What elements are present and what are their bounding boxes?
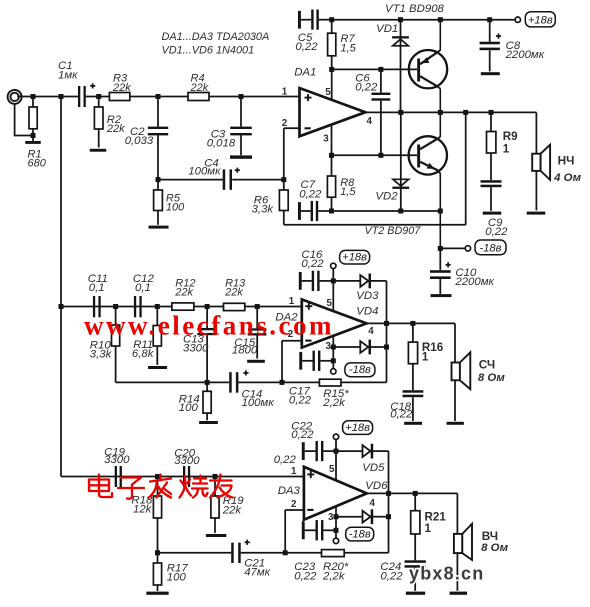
svg-text:-18в: -18в (349, 528, 371, 540)
net label +18в DA3 (343, 421, 373, 435)
node C11-C12-R10 (113, 304, 118, 309)
svg-text:VD2: VD2 (375, 191, 398, 203)
label R17 100 (167, 563, 189, 584)
resistor R4 (188, 93, 209, 101)
label C7 0,22 (299, 179, 322, 200)
svg-text:3300: 3300 (183, 343, 209, 355)
wire DA2 pin3 (332, 336, 334, 369)
node R1 bottom (31, 133, 36, 138)
svg-text:2: 2 (282, 118, 288, 129)
ground C24 (406, 592, 425, 595)
svg-text:0,22: 0,22 (291, 429, 314, 441)
op-amp DA2 (302, 299, 367, 347)
svg-text:1,5: 1,5 (341, 42, 357, 54)
node C4-R6-pin2 (281, 177, 286, 182)
node pin5 DA3 (334, 449, 339, 454)
svg-text:2: 2 (291, 499, 297, 510)
wire input to C1 (33, 96, 78, 98)
resistor R18 (153, 477, 161, 553)
svg-text:+18в: +18в (528, 14, 553, 26)
resistor R2 (94, 97, 103, 148)
node pin2-bottom line DA2 (280, 380, 285, 385)
node output-R16 (410, 321, 415, 326)
node output-feedback (463, 110, 468, 115)
svg-text:VD4: VD4 (356, 305, 378, 317)
label C9 0,22 (485, 217, 508, 238)
wire DA2 pin5 (332, 281, 334, 311)
resistor R8 (327, 155, 335, 211)
node pin5-R7-C6 line (329, 67, 334, 72)
ground speaker ВЧ (450, 592, 468, 595)
svg-text:22k: 22k (106, 123, 125, 135)
label R13 22k (224, 277, 246, 298)
svg-text:1800: 1800 (232, 345, 258, 357)
svg-text:VT2 BD907: VT2 BD907 (365, 225, 422, 237)
label R5 100 (166, 193, 185, 214)
node pin3 line left (329, 153, 334, 158)
wire DA3 pin3 (335, 506, 337, 538)
svg-text:1мк: 1мк (58, 69, 78, 81)
node jack-R1 top (31, 94, 36, 99)
svg-text:VD5: VD5 (362, 462, 385, 474)
speaker НЧ (532, 145, 550, 211)
terminal -18V DA2 (331, 369, 336, 374)
wire R15 to VD column (341, 281, 387, 383)
node C1-R2 (96, 94, 101, 99)
wire R18 bottom line (158, 552, 232, 554)
diode VD5 (336, 444, 389, 459)
label C8 2200мк (505, 40, 545, 61)
label R12 22k (174, 277, 195, 298)
svg-text:22k: 22k (112, 82, 131, 94)
svg-text:DA1...DA3 TDA2030A: DA1...DA3 TDA2030A (162, 31, 270, 43)
net label +18в main (525, 12, 555, 27)
label C16 0,22 (301, 249, 324, 270)
svg-text:-18в: -18в (349, 364, 371, 376)
ground C9 (483, 212, 502, 215)
resistor R9 (487, 112, 496, 180)
node output-R21 (413, 491, 418, 496)
wire jack sleeve down (14, 104, 33, 136)
wire main input bus vertical (60, 97, 62, 477)
capacitor C14 (229, 370, 248, 392)
svg-text:1: 1 (291, 466, 297, 477)
node C6 bottom (378, 153, 383, 158)
label C4 100мк (188, 157, 221, 177)
ground R2 (90, 149, 107, 152)
label C17 0,22 (289, 386, 312, 407)
diode VD6 (336, 509, 389, 524)
capacitor C18 (403, 390, 424, 421)
node R18-R17 (155, 550, 160, 555)
label R10 3,3k (90, 339, 113, 360)
svg-text:НЧ: НЧ (558, 154, 575, 168)
resistor R20 (322, 550, 345, 557)
wire C1 to R3 (86, 96, 110, 98)
resistor R14 (203, 382, 211, 420)
svg-text:VT1 BD908: VT1 BD908 (385, 3, 445, 15)
node emitter line joint (438, 209, 443, 214)
label R14 100 (179, 394, 200, 415)
transistor VT2 BD907 (409, 112, 447, 248)
terminal -18V main (465, 246, 470, 251)
label C22 0,22 (291, 421, 314, 441)
wire C4 to R6 node (232, 179, 284, 181)
svg-text:4: 4 (367, 116, 373, 127)
svg-text:1: 1 (282, 86, 288, 97)
capacitor C8 (480, 20, 502, 72)
op-amp DA3 (304, 467, 367, 520)
wire pin5 line to VT1 base (332, 68, 418, 70)
node C8 rail (487, 17, 492, 22)
capacitor C10 (430, 248, 451, 294)
label R3 22k (112, 73, 131, 94)
node pin5 DA2 (331, 278, 336, 283)
svg-text:VD1: VD1 (376, 23, 398, 35)
label C13 3300 (183, 334, 209, 355)
wire to speaker НЧ (535, 112, 537, 153)
svg-text:3300: 3300 (104, 454, 130, 466)
wire C21 to R20 (241, 552, 322, 554)
node -18V (438, 246, 443, 251)
svg-text:VD1...VD6 1N4001: VD1...VD6 1N4001 (162, 44, 255, 56)
capacitor C7 (298, 201, 332, 221)
label C15 1800 (232, 337, 258, 356)
wire DA1 pin3 (331, 125, 333, 156)
label R1 680 (28, 148, 47, 169)
svg-text:0,22: 0,22 (289, 395, 312, 407)
wire R20 to VD column (344, 451, 388, 553)
svg-text:22k: 22k (190, 82, 209, 94)
svg-text:6,8k: 6,8k (132, 348, 155, 360)
svg-text:1: 1 (425, 522, 432, 535)
label C5 0,22 (295, 32, 318, 53)
capacitor C19 (115, 466, 122, 487)
svg-text:100мк: 100мк (242, 397, 275, 409)
node output-VD line (398, 110, 403, 115)
svg-text:0,22: 0,22 (485, 226, 508, 238)
wire mid input line (61, 306, 302, 308)
transistor VT1 BD908 (409, 20, 447, 113)
ground C10 (431, 294, 452, 297)
svg-text:DA3: DA3 (278, 485, 301, 497)
wire pin3 line to VT2 base (332, 154, 418, 156)
label C2 0,033 (125, 126, 154, 147)
label R20* 2,2k (322, 561, 349, 583)
input connector XS1 (8, 90, 22, 104)
label R19 22k (222, 495, 245, 516)
node R4-C3 (239, 94, 244, 99)
capacitor C21 (231, 540, 250, 563)
wire to speaker СЧ (454, 323, 456, 362)
resistor R11 (153, 307, 161, 365)
svg-text:100: 100 (167, 572, 187, 584)
wire DA2 pin2 (282, 341, 302, 383)
svg-text:4: 4 (368, 326, 374, 337)
net label -18в main (475, 240, 506, 255)
svg-text:0,22: 0,22 (274, 454, 297, 466)
node output-VD column DA3 (386, 491, 391, 496)
svg-text:1,5: 1,5 (340, 186, 356, 198)
svg-text:2,2k: 2,2k (322, 570, 346, 582)
resistor R1 (29, 97, 37, 136)
label C18 0,22 (390, 401, 413, 421)
svg-text:3,3k: 3,3k (252, 203, 275, 215)
svg-text:5: 5 (325, 87, 331, 98)
wire R3 to R4 (130, 96, 188, 98)
svg-text:2200мк: 2200мк (505, 49, 545, 61)
svg-text:3,3k: 3,3k (90, 349, 113, 361)
label C6 0,22 (355, 72, 378, 93)
svg-text:0,22: 0,22 (299, 188, 322, 200)
svg-text:8 Ом: 8 Ом (478, 372, 505, 384)
node output-VD column DA2 (384, 321, 389, 326)
svg-text:1: 1 (422, 351, 429, 364)
resistor R7 (328, 20, 336, 70)
svg-text:1: 1 (289, 296, 295, 307)
speaker ВЧ (454, 524, 472, 591)
node input bus tap (59, 94, 64, 99)
capacitor C12 (134, 296, 142, 317)
label R7 1,5 (341, 33, 357, 54)
label R15* 2,2k (322, 388, 349, 409)
label C21 47мк (244, 558, 270, 579)
wire R4 to DA1 pin1 (209, 96, 300, 98)
wire DA1 pin5 (331, 69, 333, 99)
label R2 22k (106, 114, 125, 135)
svg-text:VD6: VD6 (365, 480, 388, 492)
ground C8 (481, 72, 500, 75)
svg-text:0,22: 0,22 (380, 570, 403, 582)
resistor R6 (279, 180, 288, 225)
capacitor C2 (148, 97, 168, 180)
ground R17 (146, 592, 168, 595)
net label -18в DA2 (345, 363, 375, 377)
ground C18 (404, 422, 422, 425)
label C3 0,018 (207, 128, 236, 149)
resistor R5 (154, 180, 163, 225)
ground R11 (148, 366, 167, 369)
watermark chinese characters (89, 475, 233, 499)
label C23 0,22 (294, 561, 317, 583)
wire bottom input line (61, 476, 304, 478)
wire C7-R8-VD2 bottom line (332, 210, 441, 212)
speaker СЧ (452, 352, 471, 421)
wire +18V rail (332, 19, 516, 21)
svg-text:22k: 22k (174, 287, 193, 299)
wire feedback R6 to output (284, 112, 466, 224)
node R7 top (329, 17, 334, 22)
svg-text:1: 1 (503, 142, 510, 155)
node output-VT line (438, 110, 443, 115)
node R8 bottom (329, 209, 334, 214)
wire DA1 pin2 (284, 128, 300, 179)
wire R10 bottom line (116, 381, 230, 383)
terminal +18V main (515, 17, 520, 22)
node R13-C15 (255, 304, 260, 309)
wire jack tip to R1 node (17, 96, 33, 98)
capacitor C22 (302, 441, 336, 461)
svg-text:22k: 22k (222, 504, 243, 516)
terminal -18V DA3 (333, 538, 338, 543)
resistor R12 (172, 303, 194, 310)
label R8 1,5 (340, 177, 356, 198)
label C19 3300 (104, 446, 130, 466)
node pin3-VD6 (334, 514, 339, 519)
label C20 3300 (174, 448, 200, 467)
svg-text:DA1: DA1 (294, 66, 316, 78)
capacitor C23 (302, 520, 336, 540)
node C6 top (378, 67, 383, 72)
label C1 1мк (58, 60, 78, 81)
label C14 100мк (242, 388, 275, 409)
svg-text:100: 100 (166, 202, 185, 214)
capacitor C15 (248, 307, 267, 359)
svg-text:4 Ом: 4 Ом (553, 172, 581, 184)
ground C3 (230, 155, 252, 158)
svg-text:680: 680 (28, 158, 47, 170)
label R18 12k (131, 494, 153, 515)
node VT1 emitter rail (438, 17, 443, 22)
ground R14 (199, 421, 218, 424)
capacitor C24 (405, 560, 426, 591)
capacitor C13 (197, 307, 217, 383)
svg-text:0,1: 0,1 (135, 282, 151, 294)
resistor R16 (408, 323, 417, 390)
diode VD1 (392, 20, 409, 113)
svg-text:47мк: 47мк (244, 566, 270, 578)
node bus-mid tap (59, 304, 64, 309)
svg-text:0,22: 0,22 (390, 408, 413, 420)
label C11 0,1 (88, 273, 108, 294)
svg-text:СЧ: СЧ (479, 358, 496, 372)
svg-text:100: 100 (179, 402, 199, 414)
wire DA3 pin5 (335, 451, 337, 480)
ground speaker НЧ (527, 212, 546, 215)
wire DA3 output (367, 492, 458, 494)
svg-text:3: 3 (323, 133, 329, 144)
svg-text:3: 3 (325, 341, 331, 352)
svg-text:3: 3 (328, 512, 334, 523)
svg-text:4: 4 (370, 498, 376, 509)
svg-text:12k: 12k (133, 504, 153, 516)
capacitor C1 (78, 83, 95, 107)
node pin3-C23 (334, 528, 339, 533)
svg-text:VD3: VD3 (356, 290, 379, 302)
capacitor C6 (372, 69, 391, 155)
resistor R17 (153, 553, 161, 591)
svg-text:0,22: 0,22 (295, 41, 318, 53)
resistor R15 (319, 379, 341, 386)
capacitor C20 (183, 466, 190, 487)
resistor R19 (211, 477, 219, 533)
label C12 0,1 (133, 273, 155, 294)
svg-text:22k: 22k (224, 287, 243, 299)
svg-text:-18в: -18в (479, 242, 501, 254)
svg-text:0,018: 0,018 (207, 137, 236, 149)
node VD4 right (384, 345, 389, 350)
node C2-R5-C4 (156, 177, 161, 182)
capacitor C17 (299, 351, 333, 371)
wire DA2 output (367, 322, 456, 324)
svg-text:5: 5 (326, 298, 332, 309)
node output-R9 (489, 110, 494, 115)
svg-text:8 Ом: 8 Ом (481, 542, 508, 554)
label R9 1 (503, 130, 518, 155)
svg-text:R9: R9 (503, 130, 518, 143)
svg-text:+18в: +18в (342, 252, 367, 264)
ground C15 (247, 360, 265, 363)
label C24 0,22 (380, 561, 403, 583)
wire -18V emitter line terminal (440, 247, 465, 249)
node pin3-C17 (331, 358, 336, 363)
wire to speaker ВЧ (456, 493, 458, 534)
resistor R13 (224, 303, 245, 310)
node R12-R13-C13 (205, 304, 210, 309)
terminal +18V DA2 (331, 263, 336, 281)
svg-text:0,22: 0,22 (294, 570, 317, 582)
svg-text:www.elecfans.com: www.elecfans.com (84, 311, 334, 341)
wire C2 bottom line (158, 179, 223, 181)
node C12-R11 (155, 304, 160, 309)
node pin2-bottom line DA3 (283, 550, 288, 555)
label R16 1 (422, 341, 444, 364)
diode VD4 (333, 340, 386, 355)
resistor R3 (109, 93, 129, 101)
svg-text:3300: 3300 (174, 455, 200, 467)
node VD6 right (386, 514, 391, 519)
svg-text:2200мк: 2200мк (454, 276, 494, 288)
node C19-R18 (155, 474, 160, 479)
wire C14 to R15 (238, 381, 319, 383)
capacitor C9 (481, 180, 502, 211)
svg-text:5: 5 (329, 464, 335, 475)
svg-text:0,033: 0,033 (125, 135, 154, 147)
ground R5 (149, 226, 169, 229)
ground speaker СЧ (447, 422, 464, 425)
net label -18в DA3 (346, 527, 374, 541)
capacitor C16 (299, 271, 334, 291)
net label +18в DA2 (340, 250, 370, 264)
label R21 1 (425, 510, 447, 535)
ground R19 (206, 534, 227, 537)
svg-text:0,22: 0,22 (301, 258, 324, 270)
node C13-R14 (205, 380, 210, 385)
svg-text:0,22: 0,22 (355, 81, 378, 93)
wire DA1 output rail (365, 111, 536, 113)
wire DA3 pin2 (285, 510, 304, 553)
svg-text:2,2k: 2,2k (322, 397, 346, 409)
node VD1 top (398, 17, 403, 22)
label R4 22k (190, 73, 209, 94)
svg-text:0,1: 0,1 (89, 282, 105, 294)
node VD2 bottom (398, 209, 403, 214)
diode VD3 (333, 274, 386, 289)
label C10 2200мк (454, 267, 494, 288)
terminal +18V DA3 (333, 434, 338, 451)
resistor R10 (112, 307, 120, 383)
node C20-R19 (213, 474, 218, 479)
node R3-R4-C2 (156, 94, 161, 99)
svg-text:100мк: 100мк (188, 165, 221, 177)
label R6 3,3k (252, 194, 275, 215)
capacitor C11 (93, 296, 101, 317)
svg-text:+18в: +18в (345, 422, 370, 434)
diode VD2 (392, 112, 409, 211)
ground R1 (25, 136, 41, 144)
svg-text:ybx8.cn: ybx8.cn (409, 564, 484, 584)
capacitor C5 (298, 10, 332, 30)
